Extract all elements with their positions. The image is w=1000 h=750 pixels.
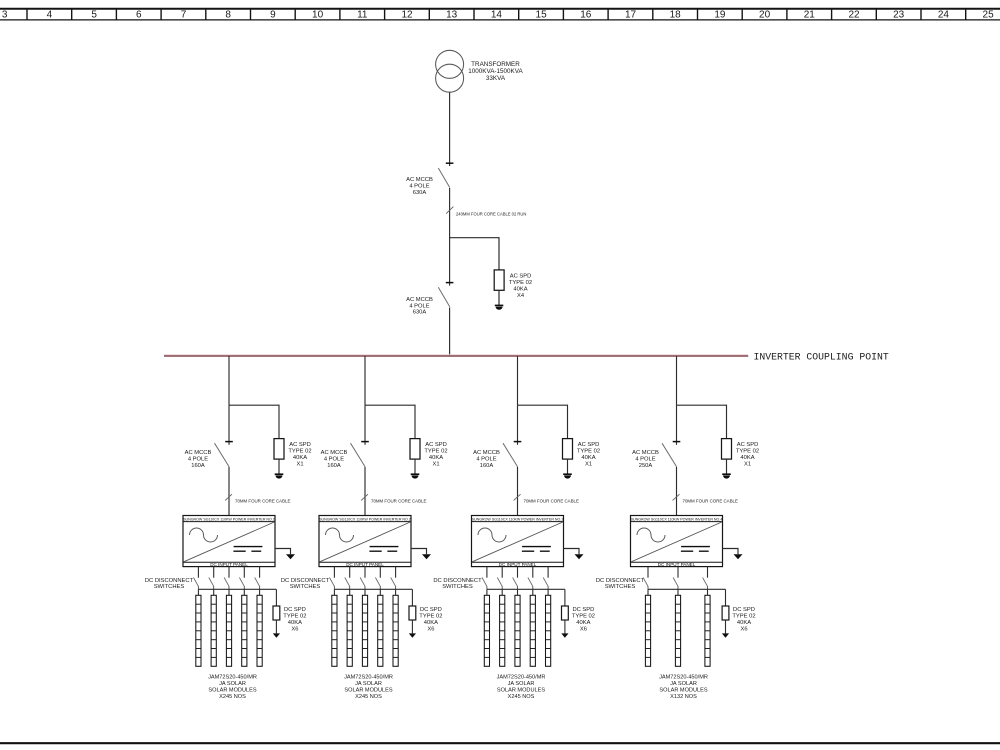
junction node horizontal wire: [450, 237, 499, 239]
branch 3: PV module label: [497, 675, 546, 700]
svg-text:DC DISCONNECT: DC DISCONNECT: [433, 578, 482, 584]
branch 3: DC SPD box: [562, 606, 569, 620]
ruler bottom border: [0, 19, 1000, 21]
svg-text:630A: 630A: [413, 310, 427, 316]
branch 3: wire to AC SPD: [567, 405, 569, 439]
svg-text:4 POLE: 4 POLE: [409, 303, 429, 309]
branch 3: AC MCCB switch symbol: [503, 442, 521, 467]
svg-text:40KA: 40KA: [293, 455, 307, 461]
svg-text:X245 NOS: X245 NOS: [508, 694, 535, 700]
branch 3: DC DISCONNECT SWITCHES label: [433, 578, 482, 590]
svg-text:AC SPD: AC SPD: [289, 442, 311, 448]
branch 2 string 2: stub from inverter: [349, 567, 351, 578]
PV module string 1.5: [257, 595, 262, 666]
svg-text:TYPE 02: TYPE 02: [419, 613, 442, 619]
svg-text:AC MCCB: AC MCCB: [321, 450, 348, 456]
inverter U4 box: [631, 516, 723, 567]
svg-text:10: 10: [312, 10, 324, 21]
branch 2: AC SPD box: [410, 439, 420, 460]
svg-text:X245 NOS: X245 NOS: [355, 694, 382, 700]
svg-text:JA SOLAR: JA SOLAR: [355, 681, 382, 687]
branch 1: junction horizontal wire: [229, 404, 279, 406]
svg-text:SWITCHES: SWITCHES: [154, 584, 185, 590]
branch 4: junction horizontal wire: [677, 404, 727, 406]
inverter U3 box: [472, 516, 564, 567]
branch 4: wire AC SPD to ground: [726, 459, 728, 474]
branch 3: wire junction to AC MCCB: [517, 405, 519, 445]
branch 2 string 5: disconnect switch blade: [391, 578, 396, 587]
svg-text:240MM FOUR CORE CABLE 02 RUN: 240MM FOUR CORE CABLE 02 RUN: [456, 212, 526, 217]
svg-text:25: 25: [983, 10, 995, 21]
branch 3: AC SPD box: [563, 439, 573, 460]
branch 1 string 5: disconnect switch blade: [255, 578, 260, 587]
svg-text:4 POLE: 4 POLE: [324, 457, 344, 463]
inverter U1 earth connection wire: [275, 549, 291, 555]
PV module string 4.3: [705, 595, 710, 666]
PV module string 2.4: [378, 595, 383, 666]
inverter U3 DC symbol solid bar: [522, 546, 551, 548]
PV module string 4.1: [645, 595, 650, 666]
branch 3: DC SPD label: [572, 607, 595, 633]
branch 4 string 2: blade to bus stub: [677, 586, 679, 589]
svg-text:AC MCCB: AC MCCB: [473, 450, 500, 456]
inverter U4 diagonal divider: [631, 522, 722, 562]
branch 2: DC collector wire: [334, 588, 412, 590]
svg-text:160A: 160A: [191, 463, 205, 469]
inverter U3 DC symbol dashed bar: [522, 550, 550, 552]
branch 1 string 2: disconnect switch blade: [209, 578, 214, 587]
svg-text:4 POLE: 4 POLE: [409, 184, 429, 190]
svg-text:JAM72S20-450/MR: JAM72S20-450/MR: [208, 675, 257, 681]
branch 1: DC SPD box: [273, 606, 280, 620]
branch 3: wire AC SPD to ground: [567, 459, 569, 474]
svg-text:X245 NOS: X245 NOS: [219, 694, 246, 700]
branch 4: wire DC SPD to earth arrow: [725, 620, 727, 633]
branch 1: cable tick mark: [225, 494, 232, 500]
branch 3: AC SPD label: [577, 442, 600, 468]
svg-text:4 POLE: 4 POLE: [188, 457, 208, 463]
svg-text:40KA: 40KA: [513, 286, 527, 292]
branch 1: DC SPD earth arrow: [273, 633, 280, 637]
svg-text:SWITCHES: SWITCHES: [442, 584, 473, 590]
inverter U4 AC sine symbol: [637, 528, 665, 542]
svg-text:X6: X6: [740, 626, 747, 632]
branch 2: DC SPD earth arrow: [409, 633, 416, 637]
svg-text:70MM FOUR CORE CABLE: 70MM FOUR CORE CABLE: [683, 499, 738, 504]
svg-text:8: 8: [225, 10, 231, 21]
branch 2: wire DC SPD to earth arrow: [411, 620, 413, 633]
branch 3: junction horizontal wire: [518, 404, 568, 406]
branch 4: drop wire from bus: [676, 356, 678, 405]
branch 2 string 3: wire to PV string: [364, 589, 366, 595]
branch 1: PV module label: [208, 675, 257, 700]
svg-text:22: 22: [848, 10, 860, 21]
branch 3: wire MCCB to inverter: [517, 467, 519, 516]
branch 2: cable tick mark: [361, 494, 368, 500]
branch 1: DC SPD label: [283, 607, 306, 633]
branch 4 string 3: blade to bus stub: [707, 586, 709, 589]
branch 4: AC MCCB label 250A: [632, 450, 659, 469]
branch 4: AC SPD box: [722, 439, 732, 460]
svg-text:40KA: 40KA: [740, 455, 754, 461]
svg-text:33KVA: 33KVA: [486, 75, 506, 82]
branch 2: AC MCCB label 160A: [321, 450, 348, 469]
branch 3 string 1: blade to bus stub: [486, 586, 488, 589]
svg-text:SUNGROW SG110CX 110KW POWER IN: SUNGROW SG110CX 110KW POWER INVERTER NO.…: [631, 517, 723, 521]
svg-text:17: 17: [625, 10, 637, 21]
PV module string 3.4: [530, 595, 535, 666]
svg-text:40KA: 40KA: [576, 620, 590, 626]
svg-text:DC DISCONNECT: DC DISCONNECT: [281, 578, 330, 584]
branch 4 string 2: wire to PV string: [677, 589, 679, 595]
PV module string 3.1: [484, 595, 489, 666]
svg-text:DC INPUT PANEL: DC INPUT PANEL: [210, 562, 248, 567]
inverter U2 DC symbol solid bar: [370, 546, 399, 548]
cable tick mark: [446, 207, 453, 214]
branch 4: wire junction to AC MCCB: [676, 405, 678, 445]
branch 1 string 4: wire to PV string: [243, 589, 245, 595]
PV module string 3.5: [546, 595, 551, 666]
branch 4 string 1: disconnect switch blade: [643, 578, 648, 587]
branch 1 string 3: blade to bus stub: [228, 586, 230, 589]
branch 2: wire to AC SPD: [414, 405, 416, 439]
inverter U3 diagonal divider: [472, 522, 563, 562]
branch 2 string 1: wire to PV string: [333, 589, 335, 595]
svg-text:19: 19: [714, 10, 726, 21]
svg-text:6: 6: [136, 10, 142, 21]
svg-text:TYPE 02: TYPE 02: [424, 448, 447, 454]
svg-text:11: 11: [357, 10, 368, 21]
wire junction to AC SPD F1: [498, 237, 500, 270]
branch 2: wire to DC SPD: [411, 589, 413, 606]
svg-text:24: 24: [938, 10, 950, 21]
MCCB Q1 label: [406, 177, 433, 196]
svg-text:DC INPUT PANEL: DC INPUT PANEL: [346, 562, 384, 567]
inverter U3 footer band: [472, 561, 564, 563]
inverter U4 footer band: [631, 561, 723, 563]
branch 2 string 4: disconnect switch blade: [375, 578, 380, 587]
svg-text:70MM FOUR CORE CABLE: 70MM FOUR CORE CABLE: [524, 499, 579, 504]
svg-text:DC SPD: DC SPD: [733, 607, 755, 613]
branch 4 string 2: disconnect switch blade: [673, 578, 678, 587]
svg-text:X1: X1: [585, 461, 592, 467]
svg-text:7: 7: [181, 10, 187, 21]
branch 2: ground symbol under AC SPD: [411, 474, 420, 478]
svg-text:DC INPUT PANEL: DC INPUT PANEL: [658, 562, 696, 567]
svg-text:AC MCCB: AC MCCB: [406, 177, 433, 183]
svg-text:SOLAR MODULES: SOLAR MODULES: [344, 687, 392, 693]
branch 1 string 4: blade to bus stub: [243, 586, 245, 589]
svg-text:70MM FOUR CORE CABLE: 70MM FOUR CORE CABLE: [371, 499, 426, 504]
inverter U2 earth arrow: [422, 554, 431, 559]
svg-text:13: 13: [446, 10, 458, 21]
branch 2 string 4: blade to bus stub: [379, 586, 381, 589]
branch 1: DC DISCONNECT SWITCHES label: [145, 578, 194, 590]
branch 2 string 3: blade to bus stub: [364, 586, 366, 589]
branch 2 string 2: disconnect switch blade: [345, 578, 350, 587]
svg-text:250A: 250A: [639, 463, 653, 469]
branch 2: wire AC SPD to ground: [414, 459, 416, 474]
branch 1: wire to AC SPD: [278, 405, 280, 439]
PV module string 2.2: [347, 595, 352, 666]
svg-text:DC SPD: DC SPD: [420, 607, 442, 613]
branch 3 string 1: wire to PV string: [486, 589, 488, 595]
branch 1 string 3: disconnect switch blade: [224, 578, 229, 587]
branch 4: AC SPD label: [736, 442, 759, 468]
branch 4 string 3: disconnect switch blade: [703, 578, 708, 587]
inverter U1 box: [183, 516, 275, 567]
PV module string 1.4: [242, 595, 247, 666]
svg-text:40KA: 40KA: [288, 620, 302, 626]
svg-text:630A: 630A: [413, 190, 427, 196]
transformer label: [468, 61, 523, 82]
wire MCCB Q2 to inverter coupling bus: [449, 308, 451, 356]
branch 4 string 1: stub from inverter: [647, 567, 649, 578]
branch 3: cable tick mark: [514, 494, 521, 500]
branch 2: DC SPD box: [409, 606, 416, 620]
branch 1 string 2: stub from inverter: [213, 567, 215, 578]
svg-text:23: 23: [893, 10, 905, 21]
svg-text:X132 NOS: X132 NOS: [670, 694, 697, 700]
branch 4 string 2: stub from inverter: [677, 567, 679, 578]
MCCB Q2 label: [406, 297, 433, 316]
svg-text:TRANSFORMER: TRANSFORMER: [471, 61, 520, 68]
svg-text:DC DISCONNECT: DC DISCONNECT: [596, 578, 645, 584]
branch 1: wire MCCB to inverter: [228, 467, 230, 516]
branch 1 string 1: stub from inverter: [197, 567, 199, 578]
svg-text:4 POLE: 4 POLE: [635, 457, 655, 463]
branch 1 string 4: stub from inverter: [243, 567, 245, 578]
branch 2: wire MCCB to inverter: [364, 467, 366, 516]
inverter U2 footer band: [319, 561, 411, 563]
branch 2 string 1: stub from inverter: [333, 567, 335, 578]
branch 2 string 2: wire to PV string: [349, 589, 351, 595]
svg-text:5: 5: [91, 10, 97, 21]
inverter U2 diagonal divider: [320, 522, 411, 562]
PV module string 1.1: [196, 595, 201, 666]
inverter U4 DC symbol solid bar: [681, 546, 710, 548]
branch 3: wire to DC SPD: [564, 589, 566, 606]
branch 2 string 1: blade to bus stub: [333, 586, 335, 589]
ruler cell dividers: [27, 9, 1000, 20]
inverter U2 header band: [319, 521, 411, 523]
svg-text:X1: X1: [432, 461, 439, 467]
inverter U2 DC symbol dashed bar: [369, 550, 397, 552]
branch 1 string 3: wire to PV string: [228, 589, 230, 595]
inverter U1 DC symbol solid bar: [234, 546, 263, 548]
branch 3 string 4: wire to PV string: [532, 589, 534, 595]
svg-text:4 POLE: 4 POLE: [476, 457, 496, 463]
svg-text:TYPE 02: TYPE 02: [283, 613, 306, 619]
svg-text:SOLAR MODULES: SOLAR MODULES: [497, 687, 545, 693]
inverter U1 footer band: [183, 561, 275, 563]
branch 3 string 1: stub from inverter: [486, 567, 488, 578]
branch 2 string 3: disconnect switch blade: [360, 578, 365, 587]
transformer T1 (two overlapping circles): [436, 50, 464, 92]
svg-text:21: 21: [804, 10, 816, 21]
branch 2 string 1: disconnect switch blade: [330, 578, 335, 587]
svg-text:JA SOLAR: JA SOLAR: [670, 681, 697, 687]
svg-text:AC MCCB: AC MCCB: [185, 450, 212, 456]
branch 3 string 3: stub from inverter: [517, 567, 519, 578]
AC SPD F1 box: [494, 270, 504, 290]
svg-text:DC SPD: DC SPD: [572, 607, 594, 613]
AC MCCB Q1 4 POLE 630A (switch symbol): [438, 163, 453, 187]
branch 1: AC MCCB switch symbol: [215, 442, 233, 467]
svg-text:16: 16: [580, 10, 592, 21]
branch 1: wire to DC SPD: [275, 589, 277, 606]
branch 1 string 1: blade to bus stub: [197, 586, 199, 589]
svg-text:160A: 160A: [480, 463, 494, 469]
branch 1: AC MCCB label 160A: [185, 450, 212, 469]
svg-text:160A: 160A: [327, 463, 341, 469]
wire transformer to MCCB Q1: [449, 92, 451, 166]
svg-text:SWITCHES: SWITCHES: [290, 584, 321, 590]
inverter U1 DC symbol dashed bar: [233, 550, 261, 552]
branch 2 string 5: blade to bus stub: [395, 586, 397, 589]
branch 4: DC SPD box: [722, 606, 729, 620]
svg-text:TYPE 02: TYPE 02: [572, 613, 595, 619]
branch 3: ground symbol under AC SPD: [563, 474, 572, 478]
ground symbol for AC SPD F1: [495, 305, 504, 309]
svg-text:DC INPUT PANEL: DC INPUT PANEL: [499, 562, 537, 567]
branch 4: wire to DC SPD: [725, 589, 727, 606]
svg-text:AC SPD: AC SPD: [737, 442, 759, 448]
branch 1 string 2: blade to bus stub: [213, 586, 215, 589]
branch 1 string 4: disconnect switch blade: [239, 578, 244, 587]
branch 2 string 4: wire to PV string: [379, 589, 381, 595]
svg-text:X1: X1: [744, 461, 751, 467]
branch 1: wire AC SPD to ground: [278, 459, 280, 474]
inverter U4 header band: [631, 521, 723, 523]
svg-text:40KA: 40KA: [581, 455, 595, 461]
svg-text:JA SOLAR: JA SOLAR: [219, 681, 246, 687]
svg-text:AC MCCB: AC MCCB: [632, 450, 659, 456]
branch 4: DC collector wire: [648, 588, 726, 590]
branch 3 string 3: wire to PV string: [517, 589, 519, 595]
PV module string 2.3: [362, 595, 367, 666]
branch 4: DC SPD label: [732, 607, 755, 633]
svg-text:TYPE 02: TYPE 02: [732, 613, 755, 619]
svg-text:SOLAR MODULES: SOLAR MODULES: [208, 687, 256, 693]
branch 1: wire junction to AC MCCB: [228, 405, 230, 445]
branch 1 string 3: stub from inverter: [228, 567, 230, 578]
AC SPD F1 label: [509, 273, 532, 299]
branch 3 string 4: stub from inverter: [532, 567, 534, 578]
svg-text:AC MCCB: AC MCCB: [406, 297, 433, 303]
svg-text:AC SPD: AC SPD: [510, 273, 532, 279]
branch 4: PV module label: [659, 675, 708, 700]
svg-text:3: 3: [2, 10, 8, 21]
inverter U3 AC sine symbol: [478, 528, 506, 542]
branch 3 string 2: wire to PV string: [501, 589, 503, 595]
branch 2: AC SPD label: [424, 442, 447, 468]
branch 2: AC MCCB switch symbol: [351, 442, 369, 467]
branch 2 string 4: stub from inverter: [379, 567, 381, 578]
svg-text:INVERTER COUPLING POINT: INVERTER COUPLING POINT: [754, 351, 889, 362]
inverter U3 earth arrow: [575, 554, 584, 559]
inverter U2 earth connection wire: [411, 549, 427, 555]
svg-text:SUNGROW SG110CX 110KW POWER IN: SUNGROW SG110CX 110KW POWER INVERTER NO.…: [183, 517, 275, 521]
PV module string 1.3: [226, 595, 231, 666]
svg-text:X6: X6: [427, 626, 434, 632]
branch 2: wire junction to AC MCCB: [364, 405, 366, 445]
ruler cell numbers 3-25: [2, 10, 994, 21]
svg-text:TYPE 02: TYPE 02: [736, 448, 759, 454]
branch 2 string 2: blade to bus stub: [349, 586, 351, 589]
branch 2: drop wire from bus: [364, 356, 366, 405]
branch 2: DC SPD label: [419, 607, 442, 633]
svg-text:JA SOLAR: JA SOLAR: [508, 681, 535, 687]
branch 3: DC collector wire: [487, 588, 565, 590]
branch 3: AC MCCB label 160A: [473, 450, 500, 469]
branch 3 string 3: disconnect switch blade: [513, 578, 518, 587]
svg-text:JAM72S20-450/MR: JAM72S20-450/MR: [659, 675, 708, 681]
branch 3 string 2: disconnect switch blade: [497, 578, 502, 587]
svg-text:TYPE 02: TYPE 02: [288, 448, 311, 454]
branch 1 string 5: blade to bus stub: [259, 586, 261, 589]
branch 1: DC collector wire: [198, 588, 276, 590]
branch 1: AC SPD label: [288, 442, 311, 468]
branch 4: wire to AC SPD: [726, 405, 728, 439]
svg-text:9: 9: [270, 10, 276, 21]
svg-text:14: 14: [491, 10, 503, 21]
branch 1: AC SPD box: [274, 439, 284, 460]
svg-text:40KA: 40KA: [424, 620, 438, 626]
branch 3 string 3: blade to bus stub: [517, 586, 519, 589]
svg-text:JAM72S20-450/MR: JAM72S20-450/MR: [497, 675, 546, 681]
PV module string 1.2: [211, 595, 216, 666]
AC MCCB Q2 4 POLE 630A (switch symbol): [438, 283, 453, 307]
branch 1 string 2: wire to PV string: [213, 589, 215, 595]
inverter U2 AC sine symbol: [326, 528, 354, 542]
branch 4: DC SPD earth arrow: [722, 633, 729, 637]
branch 3 string 2: stub from inverter: [501, 567, 503, 578]
branch 4: DC DISCONNECT SWITCHES label: [596, 578, 645, 590]
PV module string 3.2: [500, 595, 505, 666]
wire MCCB Q1 to junction node: [449, 188, 451, 238]
svg-text:4: 4: [47, 10, 53, 21]
branch 3 string 1: disconnect switch blade: [482, 578, 487, 587]
branch 4: wire MCCB to inverter: [676, 467, 678, 516]
svg-text:20: 20: [759, 10, 771, 21]
inverter U1 header band: [183, 521, 275, 523]
branch 4: cable tick mark: [673, 494, 680, 500]
svg-text:1000KVA-1500KVA: 1000KVA-1500KVA: [468, 68, 523, 75]
branch 4: ground symbol under AC SPD: [722, 474, 731, 478]
branch 3 string 4: blade to bus stub: [532, 586, 534, 589]
svg-text:18: 18: [670, 10, 682, 21]
branch 2 string 5: wire to PV string: [395, 589, 397, 595]
svg-text:15: 15: [536, 10, 548, 21]
branch 3: wire DC SPD to earth arrow: [564, 620, 566, 633]
svg-text:70MM FOUR CORE CABLE: 70MM FOUR CORE CABLE: [235, 499, 290, 504]
inverter U2 box: [319, 516, 411, 567]
svg-text:TYPE 02: TYPE 02: [577, 448, 600, 454]
inverter U3 earth connection wire: [564, 549, 580, 555]
branch 4 string 1: blade to bus stub: [647, 586, 649, 589]
branch 1 string 1: wire to PV string: [197, 589, 199, 595]
branch 1 string 5: stub from inverter: [259, 567, 261, 578]
inverter U4 DC symbol dashed bar: [681, 550, 709, 552]
inverter U1 earth arrow: [286, 554, 295, 559]
inverter U3 header band: [472, 521, 564, 523]
branch 3: drop wire from bus: [517, 356, 519, 405]
svg-text:SWITCHES: SWITCHES: [605, 584, 636, 590]
branch 2 string 5: stub from inverter: [395, 567, 397, 578]
svg-text:X6: X6: [291, 626, 298, 632]
branch 3 string 2: blade to bus stub: [501, 586, 503, 589]
